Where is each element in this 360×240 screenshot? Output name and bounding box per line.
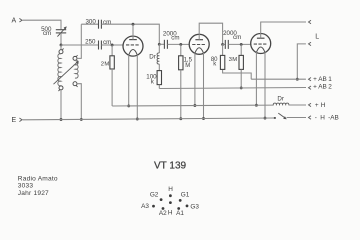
variometer arrow [54, 61, 79, 84]
triode V1 [123, 36, 143, 56]
terminal L2 [309, 42, 312, 45]
wire C300 to plate node [101, 24, 159, 44]
plug contact coil L1 bottom [59, 86, 63, 90]
terminal +H [309, 103, 312, 106]
wire grid node to R3 [180, 44, 182, 55]
capacitor C2000b [225, 40, 228, 49]
plug contact coil L1 top [59, 50, 63, 54]
svg-text:Jahr 1927: Jahr 1927 [18, 190, 49, 197]
capacitor 2000cm (2) label [223, 30, 241, 41]
wire C250 to grid V1 [101, 44, 123, 46]
inductor L2 (secondary coil) [75, 60, 78, 78]
svg-text:-AB: -AB [328, 114, 339, 121]
label -H-AB [315, 114, 339, 121]
wire L2 top to 300cm [77, 24, 81, 58]
capacitor C250 [99, 41, 102, 50]
svg-text:Dr: Dr [149, 54, 156, 61]
wire L2 to +AB1 [297, 44, 306, 79]
svg-text:Dr: Dr [277, 96, 284, 103]
node fil V1 / +H [127, 104, 130, 107]
wire node to R4 [222, 44, 224, 55]
capacitor 2000cm (1) label [163, 30, 180, 41]
wire choke to R2 [158, 64, 160, 71]
node R5 / +AB2 [240, 86, 243, 89]
wire antenna top [23, 20, 62, 29]
svg-text:H: H [168, 210, 173, 217]
resistor R3 1,5M [179, 56, 183, 70]
wire filament V2 right to -H [203, 53, 205, 119]
capacitor C1 500cm (variable) [56, 26, 67, 36]
svg-text:250: 250 [85, 38, 96, 45]
svg-text:AB: AB [318, 84, 327, 91]
wire +AB1 bus [251, 78, 306, 80]
svg-text:M: M [232, 57, 237, 63]
svg-text:H: H [321, 102, 326, 109]
capacitor 250cm label [85, 38, 111, 46]
svg-text:+: + [313, 84, 317, 91]
plug contact coil L2 top [73, 56, 77, 60]
terminal -H-AB [309, 116, 312, 119]
wire grid V1 from antenna node [61, 44, 99, 46]
capacitor C1 500cm label [41, 26, 52, 37]
svg-text:H: H [320, 114, 325, 121]
wire node to C2000a [159, 43, 164, 45]
wire below C1 [60, 33, 62, 45]
svg-text:VT 139: VT 139 [154, 161, 186, 172]
node R3 / -H [179, 117, 182, 120]
svg-text:cm: cm [171, 35, 179, 42]
svg-text:M: M [185, 63, 190, 69]
svg-text:A1: A1 [176, 210, 184, 217]
wire R1 to +H bus [111, 69, 113, 106]
triode V2 [189, 34, 209, 54]
resistor R3 1,5M label [184, 57, 193, 69]
choke Dr2 [273, 103, 289, 105]
wire grid node to R1 [111, 45, 113, 56]
wire C2000a to grid V2 [167, 43, 189, 45]
resistor R5 3M [239, 55, 243, 69]
svg-text:L: L [315, 33, 319, 40]
svg-text:G1: G1 [181, 191, 190, 198]
wire choke to +H terminal [289, 104, 306, 106]
node plate V1 / 300cm [132, 23, 135, 26]
resistor R2 100k label [146, 74, 157, 86]
svg-text:-: - [315, 114, 317, 121]
wire grid node to R5 [240, 44, 242, 55]
svg-text:H: H [168, 186, 173, 193]
resistor R5 3M label [229, 57, 238, 63]
wire +AB2 bus [159, 88, 306, 89]
node grid V1 / 2M [111, 44, 114, 47]
node fil V3 / -H [264, 117, 267, 120]
wire R4 to +AB1 bus [223, 70, 252, 79]
node fil V3 / +H [255, 104, 258, 107]
wire plate V1 up [132, 24, 134, 39]
label +AB2 [313, 84, 332, 91]
node plate V1 coupling [158, 43, 161, 46]
node junction antenna/grid [60, 44, 63, 47]
node plate V2 / R4 / C2000b [221, 43, 224, 46]
resistor R4 80k [220, 55, 224, 69]
terminal +AB1 [309, 78, 312, 81]
svg-text:G2: G2 [150, 191, 159, 198]
wire plate V2 [199, 23, 222, 44]
svg-text:cm: cm [233, 34, 241, 41]
resistor R1 2M label [101, 61, 110, 67]
wire node to choke [158, 44, 160, 53]
svg-text:A: A [12, 18, 17, 25]
wire switch to -H-AB terminal [287, 117, 306, 119]
terminal L1 [309, 20, 312, 23]
caption Radio Amato [18, 176, 58, 198]
wire to coil [60, 45, 62, 50]
resistor R2 100k [157, 71, 161, 85]
switch S1 [274, 113, 287, 119]
wire node to C2000b [223, 43, 226, 45]
svg-text:cm: cm [43, 30, 51, 37]
wire filament V1 left to +H [128, 55, 130, 106]
svg-text:M: M [104, 61, 109, 67]
svg-text:3033: 3033 [18, 183, 34, 190]
wire R3 to -H bus [180, 70, 182, 119]
socket pin H top [141, 186, 199, 217]
svg-text:+: + [313, 76, 317, 83]
plug contact coil L2 bottom [73, 82, 77, 86]
node fil V1 / -H [136, 118, 139, 121]
svg-text:1: 1 [328, 76, 332, 83]
triode V3 [251, 34, 271, 54]
wire coil L1 to E bus [60, 90, 62, 120]
wire filament V2 left to +H [194, 53, 196, 106]
node fil V2 / +H [193, 104, 196, 107]
node fil V2 / -H [202, 117, 205, 120]
label +AB1 [313, 76, 332, 83]
wire L2 to C300 [81, 23, 98, 25]
wire +H bus [112, 104, 273, 107]
svg-text:2: 2 [328, 84, 332, 91]
svg-text:AB: AB [318, 76, 327, 83]
node L2/E bus [80, 118, 83, 121]
inductor L1 (antenna coil) [58, 54, 61, 86]
node L2 / +AB1 [296, 78, 299, 81]
wire R5 to +AB2 bus [240, 69, 242, 88]
capacitor C300 [99, 20, 102, 29]
node grid V2 / R3 [179, 43, 182, 46]
terminal A [12, 18, 23, 25]
node L1/E bus [60, 118, 63, 121]
terminal +AB2 [309, 86, 312, 89]
terminal E [12, 117, 23, 124]
svg-text:A2: A2 [159, 210, 167, 217]
wire plate V3 to L terminal [261, 22, 306, 38]
wire L2 bottom to E bus [77, 84, 81, 120]
svg-text:Radio Amato: Radio Amato [18, 176, 58, 183]
wire E bus [23, 118, 276, 120]
capacitor 300cm label [85, 19, 111, 27]
socket pin H center [169, 201, 172, 204]
wire filament V3 right to -H [264, 52, 266, 118]
wire C2000b to grid V3 [228, 43, 251, 45]
wire R2 to +AB2 bus [158, 85, 160, 89]
svg-text:cm: cm [103, 19, 111, 26]
wire filament V1 right to -H bus [136, 55, 138, 119]
svg-text:E: E [12, 117, 17, 124]
node grid V3 / R5 [240, 43, 243, 46]
svg-text:+: + [315, 102, 319, 109]
svg-text:G3: G3 [190, 203, 199, 210]
wire filament V3 left to +H [255, 52, 257, 105]
choke Dr1 [157, 53, 159, 64]
resistor R1 2M [110, 56, 114, 69]
svg-text:A3: A3 [141, 203, 149, 210]
capacitor C2000a [164, 40, 167, 49]
label +H [315, 102, 326, 109]
resistor R4 80k label [211, 57, 218, 68]
